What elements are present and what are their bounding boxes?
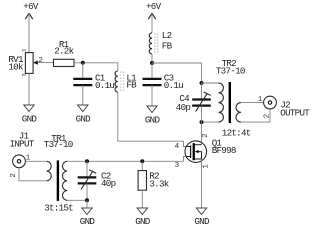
- capacitor C1: [73, 73, 114, 91]
- wire node A to L1: [117, 63, 119, 71]
- wire TR2 primary bottom lead: [202, 121, 219, 123]
- ground under Q1: [194, 208, 210, 227]
- node G junction: [85, 198, 89, 202]
- node C junction TR2 top: [200, 81, 204, 85]
- svg-text:3: 3: [175, 162, 180, 170]
- ground under C2: [80, 208, 96, 227]
- svg-text:+6V: +6V: [23, 1, 39, 12]
- svg-text:+6V: +6V: [146, 1, 162, 12]
- wire TR1 secondary bottom to node G: [67, 199, 87, 201]
- svg-text:40p: 40p: [176, 102, 191, 113]
- svg-text:GND: GND: [135, 216, 151, 227]
- svg-text:BF998: BF998: [212, 145, 236, 156]
- wire node A down to C1: [82, 63, 84, 78]
- wire L1 to Q1 gate2 row: [118, 92, 186, 147]
- svg-text:FB: FB: [162, 40, 173, 51]
- wire RV1 to ground: [28, 73, 30, 105]
- trimmer capacitor C2: [78, 161, 116, 200]
- node B junction: [150, 61, 154, 65]
- connector J1: [10, 131, 35, 168]
- ground under C1: [76, 105, 92, 125]
- svg-text:1: 1: [202, 164, 210, 169]
- wire node G to ground: [86, 200, 88, 208]
- svg-text:0.1u: 0.1u: [164, 80, 183, 91]
- wire TR2 primary top lead: [202, 82, 219, 84]
- wire TR1 secondary top rail: [67, 160, 184, 162]
- wire node B to TR2 primary top: [152, 63, 202, 83]
- wire Q1 source to ground: [201, 159, 203, 208]
- svg-text:FB: FB: [126, 80, 137, 91]
- svg-text:INPUT: INPUT: [10, 139, 35, 150]
- wire R1 to node A: [74, 62, 118, 64]
- svg-text:GND: GND: [145, 114, 161, 125]
- svg-text:10k: 10k: [8, 62, 24, 73]
- ground under C3: [145, 106, 161, 125]
- node A junction: [81, 61, 85, 65]
- svg-text:3.3k: 3.3k: [149, 179, 169, 190]
- wire node B down to C3: [151, 63, 153, 78]
- svg-text:3t:15t: 3t:15t: [44, 202, 73, 213]
- power +6V symbol right: [146, 1, 162, 33]
- svg-text:0.1u: 0.1u: [95, 80, 114, 91]
- node D junction TR2 bottom: [200, 120, 204, 124]
- transistor Q1 BF998: [185, 138, 236, 163]
- ground under RV1: [22, 105, 38, 125]
- potentiometer RV1: [8, 53, 53, 74]
- transformer TR2: [216, 58, 251, 139]
- svg-text:2: 2: [38, 57, 43, 65]
- svg-text:40p: 40p: [101, 178, 116, 189]
- svg-text:1: 1: [258, 96, 263, 104]
- svg-text:3: 3: [21, 73, 28, 76]
- svg-text:T37-10: T37-10: [44, 139, 73, 150]
- trimmer capacitor C4: [176, 83, 211, 122]
- svg-text:4: 4: [175, 143, 180, 151]
- wire C3 to ground: [151, 85, 153, 106]
- node E junction C2 top: [85, 159, 89, 163]
- svg-text:GND: GND: [194, 216, 210, 227]
- svg-text:2: 2: [10, 173, 18, 178]
- capacitor C3: [143, 73, 184, 91]
- power +6V symbol left: [23, 1, 39, 53]
- svg-text:T37-10: T37-10: [216, 65, 245, 76]
- wire TR2 secondary top to J2 pin1: [241, 102, 264, 104]
- svg-text:OUTPUT: OUTPUT: [280, 107, 310, 118]
- connector J2: [264, 96, 311, 118]
- svg-text:GND: GND: [80, 216, 96, 227]
- transformer TR1: [44, 133, 73, 213]
- wire J1 pin2 to TR1 primary bottom: [19, 168, 47, 181]
- svg-text:2: 2: [202, 133, 210, 138]
- resistor R2: [138, 161, 170, 208]
- wire J2 pin2 to TR2 secondary bottom: [241, 109, 270, 122]
- inductor L2 ferrite bead: [149, 30, 172, 54]
- wire rail jog into Q1 gate1: [184, 157, 187, 162]
- wire L2 to node B: [151, 54, 153, 63]
- inductor L1 ferrite bead: [115, 71, 137, 92]
- svg-text:GND: GND: [76, 114, 92, 125]
- resistor R1: [54, 39, 75, 67]
- wire TR2 bottom to Q1 drain: [201, 122, 203, 145]
- svg-text:2.2k: 2.2k: [54, 46, 74, 57]
- ground under R2: [135, 208, 151, 227]
- wire C1 to ground: [82, 85, 84, 105]
- svg-text:12t:4t: 12t:4t: [222, 128, 251, 139]
- svg-text:GND: GND: [22, 114, 38, 125]
- wire J1 pin1 to TR1 primary top: [25, 160, 46, 162]
- node F junction R2 top: [140, 159, 144, 163]
